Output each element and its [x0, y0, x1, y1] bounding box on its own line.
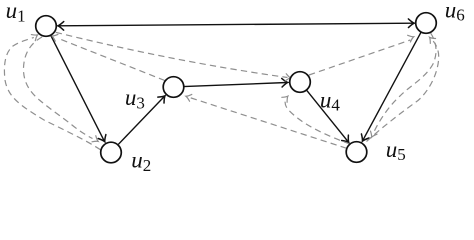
- arrowhead into u4 (from u5): [282, 94, 291, 103]
- svg-text:u6: u6: [445, 0, 465, 25]
- node u2: [101, 142, 122, 163]
- dashed edge u5->u4 (curve under solid u4-u5): [285, 98, 350, 144]
- dashed edge u1->u4: [56, 32, 288, 77]
- dashed edge u5->u3: [189, 97, 346, 148]
- arrowhead into u4: [282, 78, 288, 87]
- arrowhead into u1 (from u3): [51, 33, 58, 42]
- arrowhead into u6 (right end of u1-u6): [408, 19, 414, 28]
- node u5: [346, 142, 367, 163]
- dashed edge u1->u2 (inner left curve): [23, 37, 92, 139]
- svg-text:u3: u3: [125, 85, 145, 112]
- arrowhead into u5 (from u6): [359, 134, 369, 143]
- arrowhead into u5 (from u6): [368, 131, 377, 139]
- node u3: [163, 77, 184, 98]
- node u1: [36, 16, 57, 37]
- arrowhead into u2 (from u1): [92, 136, 100, 145]
- arrowhead into u2: [98, 135, 108, 144]
- arrowhead into u3: [158, 93, 168, 103]
- arrowhead into u6 (from u4): [408, 33, 415, 42]
- arrowhead into u6 (from u5): [427, 35, 436, 44]
- arrowhead into u3 (from u5): [185, 93, 192, 101]
- svg-text:u5: u5: [386, 137, 406, 164]
- svg-text:u2: u2: [131, 148, 151, 175]
- node u6: [416, 13, 437, 34]
- svg-text:u1: u1: [6, 0, 26, 25]
- dashed edge u4->u6: [309, 40, 410, 75]
- wire: solid edge u2->u3: [118, 96, 164, 144]
- node u4: [290, 72, 311, 93]
- dashed edge u2->u1 (outer left curve): [4, 37, 100, 149]
- wire: solid edge u1-u6 (bidirectional): [59, 23, 414, 26]
- arrowhead into u1 (from u2): [31, 32, 39, 41]
- dashed edge u5->u6 (outer right curve): [367, 40, 439, 142]
- arrowhead into u5 (from u4): [342, 135, 352, 145]
- wire: solid edge u3->u4: [183, 83, 287, 87]
- dashed edge u3->u1: [58, 38, 165, 80]
- wire: solid edge u6->u5: [363, 32, 421, 140]
- arrowhead into u1 (left end of u1-u6): [58, 21, 64, 30]
- wire: solid edge u4->u5: [307, 90, 349, 142]
- svg-text:u4: u4: [320, 87, 341, 114]
- arrowhead into u4 (from u1): [285, 74, 291, 82]
- dashed edge u6->u5 (inner right curve): [374, 33, 436, 132]
- wire: solid edge u1->u2: [51, 35, 105, 141]
